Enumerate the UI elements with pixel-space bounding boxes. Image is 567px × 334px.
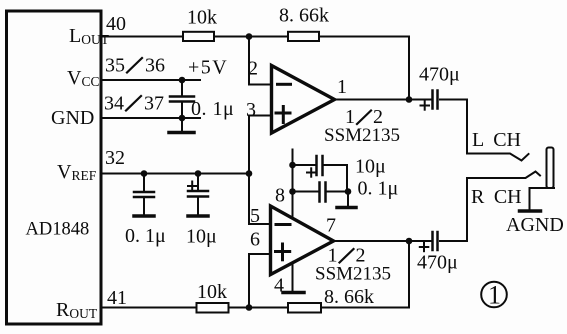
wire R3 to junction B — [229, 307, 289, 309]
svg-text:34: 34 — [104, 93, 124, 115]
node: Vref C3 — [195, 170, 202, 177]
resistor R2 8.66k (feedback) — [288, 32, 319, 41]
wire R_OUT pin 41 from box to R3 — [101, 307, 197, 309]
ground bar under C3 — [188, 214, 208, 218]
capacitor C1 plates — [170, 95, 194, 98]
op-amp U1B plus symbol — [276, 250, 290, 253]
svg-text:37: 37 — [144, 93, 164, 115]
slash of pin label 35/36 — [127, 58, 142, 73]
node: bottom junction B — [246, 304, 253, 311]
svg-text:SSM2135: SSM2135 — [324, 125, 400, 146]
wire R CH with hook — [467, 172, 540, 179]
node: top junction A — [246, 33, 253, 40]
ground bar under C7 — [337, 206, 356, 210]
svg-text:470μ: 470μ — [417, 252, 458, 274]
svg-text:3: 3 — [246, 99, 256, 121]
wire op1 pin3 to vertical bus down to op2 pin5 — [249, 116, 272, 225]
node: op2 out — [406, 238, 413, 245]
node: Vref bus — [246, 170, 253, 177]
figure number circle — [481, 282, 507, 308]
svg-text:32: 32 — [105, 147, 125, 169]
node: pin8 10u — [289, 162, 296, 169]
svg-text:4: 4 — [274, 275, 284, 297]
wire C6 right lead down — [324, 165, 348, 192]
resistor R1 10k — [183, 32, 214, 41]
resistor R4 8.66k (feedback) — [288, 303, 321, 313]
svg-text:AD1848: AD1848 — [26, 220, 90, 240]
svg-text:0. 1μ: 0. 1μ — [191, 98, 234, 120]
svg-text:8: 8 — [275, 185, 285, 207]
wire V_CC pin 35/36 — [101, 79, 200, 81]
svg-text:+5V: +5V — [188, 57, 228, 79]
wire GND pin 34/37 — [101, 117, 200, 119]
plus mark C4 — [421, 105, 430, 107]
slash of pin label 34/37 — [126, 96, 141, 111]
svg-text:1: 1 — [488, 281, 501, 310]
svg-text:LCH: LCH — [472, 129, 521, 151]
op-amp U1A plus symbol — [276, 112, 290, 115]
wire op2 pin 4 down — [292, 263, 294, 291]
ground bar pin 4 — [283, 291, 304, 295]
capacitor C5 470u plates — [431, 232, 434, 250]
slash of 1/2 op2 — [340, 249, 354, 263]
capacitor C4 470u plates — [431, 91, 434, 109]
resistor R3 10k — [197, 303, 229, 313]
node: op1 out — [406, 96, 413, 103]
wire junction A down to op1 pin2 — [249, 37, 272, 85]
capacitor C3 bottom lead — [197, 198, 199, 215]
wire op1 output to C4 — [335, 99, 432, 101]
svg-text:5: 5 — [250, 205, 260, 227]
svg-text:35: 35 — [105, 55, 125, 77]
svg-text:41: 41 — [107, 287, 127, 309]
node: Vcc cap — [179, 77, 186, 84]
capacitor C2 plates — [134, 191, 154, 194]
wire op2 pin6 down to junction B — [249, 254, 271, 308]
wire R2 to top right corner, down to op1 output — [319, 37, 409, 100]
svg-text:SSM2135: SSM2135 — [315, 264, 391, 285]
svg-text:6: 6 — [250, 229, 260, 251]
op-amp U1B triangle — [271, 206, 334, 275]
capacitor C3 10u top lead — [197, 174, 199, 191]
connector jack plug — [547, 148, 554, 189]
svg-text:1: 1 — [337, 76, 347, 98]
wire L_OUT pin 40 from box to R1 — [101, 36, 183, 38]
wire C7 right lead — [327, 191, 349, 193]
wire jack bottom to AGND — [530, 188, 555, 209]
plus mark C3 — [188, 185, 197, 187]
slash of 1/2 op1 — [357, 111, 371, 125]
svg-text:8. 66k: 8. 66k — [279, 5, 329, 27]
capacitor C1 0.1u top lead — [181, 80, 183, 96]
node: GND cap — [179, 115, 186, 122]
wire C4 to L CH corner — [440, 100, 467, 154]
capacitor C2 0.1u top lead — [143, 174, 145, 192]
svg-text:AGND: AGND — [506, 214, 564, 236]
svg-text:0. 1μ: 0. 1μ — [125, 225, 166, 247]
capacitor C6 10u left lead — [293, 164, 316, 166]
wire C5 up to R CH — [440, 178, 467, 241]
ground bar AGND — [520, 209, 541, 213]
svg-text:10μ: 10μ — [186, 226, 217, 248]
wire op2 output to C5 — [334, 240, 432, 242]
svg-text:10k: 10k — [187, 7, 217, 29]
capacitor C2 bottom lead — [143, 198, 145, 214]
wire L CH with hook — [467, 154, 529, 161]
svg-text:470μ: 470μ — [419, 64, 460, 86]
ground bar under C1 — [169, 131, 194, 135]
capacitor C7 0.1u left lead — [293, 191, 319, 193]
svg-text:7: 7 — [326, 215, 336, 237]
svg-text:8. 66k: 8. 66k — [324, 286, 374, 308]
node: pin8 0.1u — [289, 188, 296, 195]
svg-text:2: 2 — [248, 58, 258, 80]
op-amp U1B minus symbol — [276, 223, 290, 226]
svg-text:0. 1μ: 0. 1μ — [358, 178, 399, 200]
wire R1 to junction A — [214, 36, 288, 38]
wire V_REF pin 32 — [101, 173, 249, 175]
svg-text:10μ: 10μ — [355, 156, 386, 178]
IC U2 AD1848 box — [7, 11, 102, 324]
capacitor C3 plates — [188, 190, 208, 193]
capacitor C7 plates — [318, 183, 321, 202]
svg-text:10k: 10k — [197, 281, 227, 303]
op-amp U1A triangle — [272, 66, 335, 134]
svg-text:GND: GND — [51, 107, 94, 129]
svg-text:40: 40 — [106, 13, 126, 35]
wire down to ground from C7 — [347, 192, 349, 207]
capacitor C1 bottom lead — [181, 103, 183, 132]
plus mark C5 — [420, 246, 429, 248]
wire R4 to bottom right corner, up to op2 output — [321, 241, 409, 308]
capacitor C6 plates — [315, 156, 318, 175]
wire op2 pin 8 stub — [292, 150, 294, 219]
svg-text:36: 36 — [145, 55, 165, 77]
plus mark C6 — [307, 172, 316, 174]
op-amp U1A minus symbol — [278, 83, 291, 86]
node: Vref C2 — [141, 170, 148, 177]
svg-text:RCH: RCH — [471, 186, 522, 208]
node: C7 right — [345, 188, 352, 195]
ground bar under C2 — [134, 214, 154, 218]
